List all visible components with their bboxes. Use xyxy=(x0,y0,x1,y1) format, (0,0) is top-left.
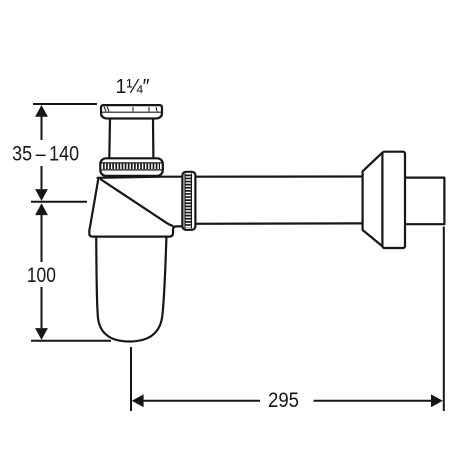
extension line: cup bottom center vertical xyxy=(130,347,132,411)
compression nut xyxy=(100,158,163,176)
dimension 100 line lower xyxy=(41,287,43,328)
dimension 100 line upper xyxy=(41,215,43,262)
arrowhead up (35-140 top) xyxy=(35,105,48,117)
trap cup xyxy=(96,238,166,342)
wall pipe xyxy=(405,178,444,225)
arrowhead left (295) xyxy=(132,394,144,407)
knurl band xyxy=(103,163,160,169)
trap body top edge xyxy=(98,177,183,178)
outlet pipe top edge xyxy=(183,175,362,177)
wall flange cone xyxy=(363,152,384,247)
outlet pipe bottom edge xyxy=(183,222,362,225)
arrowhead right (295) xyxy=(431,394,443,407)
svg-text:100: 100 xyxy=(27,264,56,287)
dimension 295 line left xyxy=(144,400,261,402)
extension line: wall pipe end xyxy=(443,227,445,412)
trap body left edge and bottom xyxy=(89,178,183,237)
svg-text:295: 295 xyxy=(268,389,299,412)
svg-text:1¼″: 1¼″ xyxy=(116,76,150,98)
extension line: outlet centerline xyxy=(31,201,87,203)
dimension 35-140 line lower xyxy=(41,166,43,189)
dimension 35-140 line upper xyxy=(41,116,43,140)
wall flange face xyxy=(382,152,405,248)
arrowhead up (100 top) xyxy=(35,203,48,215)
trap body diagonal edge xyxy=(101,180,173,226)
tailpiece xyxy=(109,119,153,159)
extension line: cup bottom xyxy=(31,340,111,342)
extension line: top of inlet nut xyxy=(33,103,97,105)
inlet nut xyxy=(101,105,162,118)
outlet nut xyxy=(182,172,195,230)
svg-text:35 – 140: 35 – 140 xyxy=(12,143,79,166)
knurl band xyxy=(185,175,190,228)
arrowhead down (35-140 bottom) xyxy=(35,189,48,201)
dimension 295 line right xyxy=(314,400,432,402)
arrowhead down (100 bottom) xyxy=(35,328,48,340)
